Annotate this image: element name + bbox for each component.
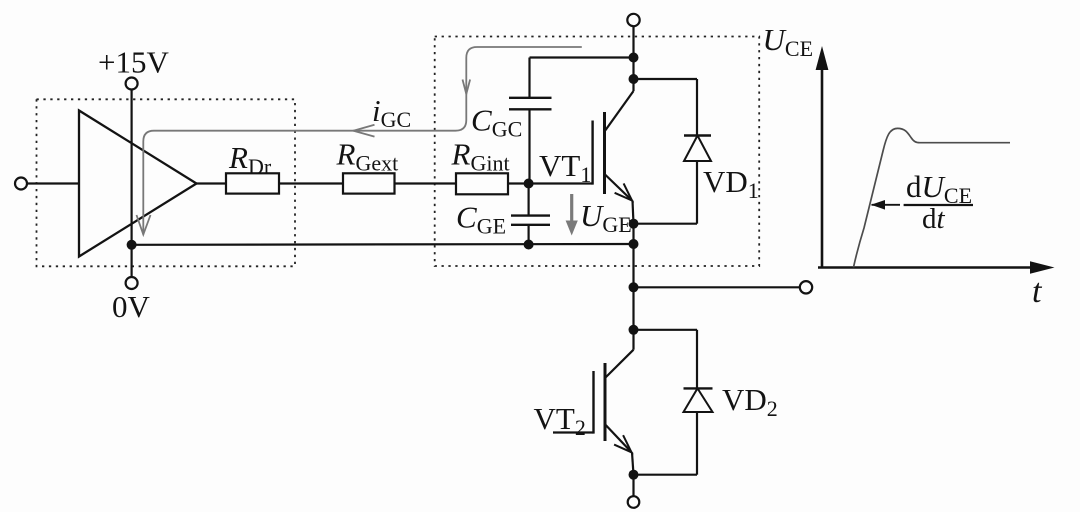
resistor R_Gext: [343, 173, 395, 193]
wire midpoint to VT2: [632, 287, 634, 330]
svg-text:dt: dt: [922, 203, 946, 235]
arrowhead i_GC left (mid line): [353, 125, 374, 137]
wire to midpoint: [632, 244, 634, 287]
resistor R_Gint: [456, 173, 508, 194]
driver dotted box: [37, 99, 296, 266]
graph x-axis: [818, 266, 1034, 269]
node emitter VT2: [629, 470, 639, 480]
wire C_GC top to collector: [530, 56, 634, 58]
wire R_Dr to R_Gext: [279, 182, 343, 184]
wire i_GC gray current path: [143, 47, 582, 235]
wire input: [27, 182, 79, 184]
capacitor C_GE: [511, 184, 550, 245]
arrowhead i_GC down (on C_GC branch): [463, 80, 471, 95]
transistor VT2 (IGBT): [553, 330, 634, 475]
wire emitter to return: [632, 224, 634, 244]
curve U_CE(t): [854, 128, 1011, 267]
node gate: [524, 179, 534, 189]
svg-text:t: t: [1032, 273, 1043, 310]
svg-text:+15V: +15V: [98, 45, 169, 80]
capacitor C_GC: [509, 58, 552, 184]
node VT2 collector: [629, 325, 639, 335]
op-amp driver triangle: [79, 111, 197, 257]
wire emitter to bottom terminal: [632, 475, 634, 496]
diode VD2: [634, 330, 713, 475]
terminal output: [800, 281, 812, 293]
wire driver output: [197, 182, 227, 184]
terminal input: [15, 178, 27, 190]
wire +15V vertical through driver: [131, 90, 133, 278]
terminal bottom: [628, 496, 640, 508]
arrow dU/dt pointer: [871, 200, 900, 210]
diode VD1: [634, 79, 712, 224]
arrow U_GE (gray): [566, 194, 578, 236]
IGBT module dotted box: [435, 37, 760, 267]
label dU_CE/dt fraction: [904, 169, 973, 235]
wire R_Gext to R_Gint: [395, 182, 457, 184]
wire top collector: [632, 26, 634, 79]
wire return line: [132, 243, 634, 246]
wire gate: [508, 182, 593, 184]
wire midpoint output: [634, 286, 800, 288]
node collector B: [629, 74, 639, 84]
svg-text:0V: 0V: [112, 289, 151, 324]
transistor VT1 (IGBT): [593, 79, 634, 224]
terminal +15V: [126, 78, 138, 90]
node collector A: [629, 53, 639, 63]
node midpoint: [629, 282, 639, 292]
wire to VD2 top: [634, 329, 698, 331]
node C_GE bottom: [524, 240, 534, 250]
node 0V junction: [127, 240, 137, 250]
terminal 0V: [126, 277, 138, 289]
graph y-axis: [821, 62, 824, 268]
resistor R_Dr: [226, 173, 279, 193]
arrowhead gray down at driver: [137, 215, 151, 235]
terminal top collector: [627, 14, 639, 26]
node emitter VT1: [629, 219, 639, 229]
node return right: [629, 239, 639, 249]
wire to VD1 top: [634, 78, 698, 80]
